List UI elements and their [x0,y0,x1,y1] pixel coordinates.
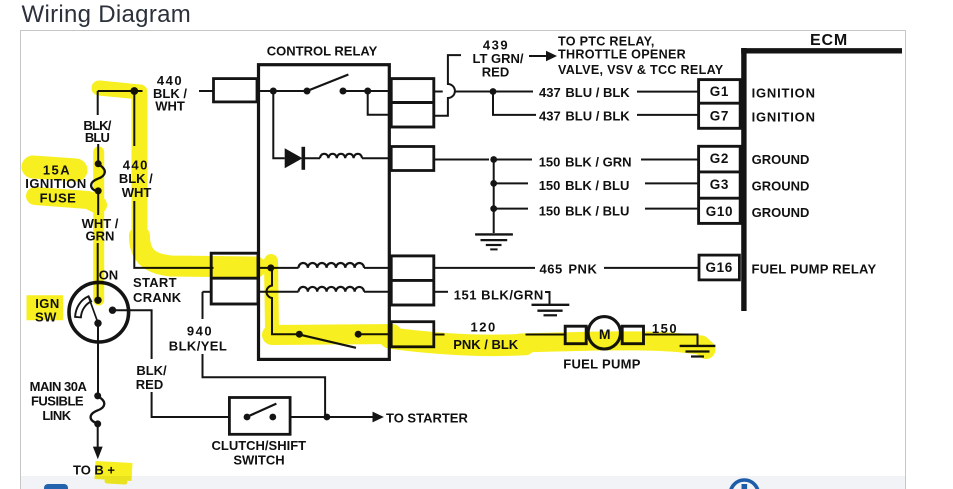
svg-text:IGNITION: IGNITION [752,110,816,125]
svg-text:PNK / BLK: PNK / BLK [453,337,519,352]
label wire 940 BLK/YEL [169,324,227,354]
ignition switch wiper crescent [75,296,91,317]
svg-text:START: START [133,275,177,290]
svg-text:ON: ON [99,268,119,283]
relay coil L2 [299,263,365,268]
relay terminal box RBC [391,147,434,171]
page title [22,1,192,29]
relay terminal box RBB divider [391,101,434,104]
relay suppression coil L1 [320,154,362,158]
label wire 440 BLK/WHT (top) [153,73,187,114]
svg-text:437 BLU / BLK: 437 BLU / BLK [539,85,630,100]
fuse 15A IGNITION FUSE terminal dot top [95,160,102,167]
svg-text:G10: G10 [706,204,733,219]
wire 940 BLK/YEL from LB3 [203,291,212,293]
wire from START CRANK contact [113,310,152,359]
wire 150 BLK/GRN from RBC [434,159,489,161]
arrow to PTC relay [529,55,546,57]
relay coil L3 [299,287,365,292]
highlighter over IGN SW label [27,295,64,320]
svg-text:FUEL PUMP RELAY: FUEL PUMP RELAY [752,262,877,277]
svg-text:G2: G2 [710,151,729,166]
wire BLK/RED lower segment [152,392,230,417]
svg-text:GROUND: GROUND [752,152,810,167]
svg-text:BLK/: BLK/ [136,363,167,378]
junction dot node 440 [130,87,138,95]
svg-text:GROUND: GROUND [752,178,810,193]
wire battery feed to fusible link [97,323,99,396]
fusible link MAIN 30A squiggle element [91,396,105,423]
wire 150 into G3 [645,182,699,184]
ignition switch IGN SW body circle [69,282,129,342]
ECM module bar horizontal top [741,48,902,53]
ECM connector box G2 [699,146,741,223]
footer button (next section, cropped) [44,484,68,489]
label switch position START CRANK [133,275,182,305]
junction dot node 150 row G2 [490,156,497,163]
wire coil L3 to RBE [364,291,392,293]
ground symbol under ground bus [475,233,513,235]
wire 465 PNK into G16 [604,267,699,269]
svg-text:RED: RED [136,377,163,392]
junction dot node 150 row G10 [490,205,497,212]
relay fuel pump contact dot right [355,331,362,338]
relay coil L2 feed dot [267,264,274,271]
svg-text:CONTROL RELAY: CONTROL RELAY [267,44,378,59]
highlighter inside relay vertical jog [271,261,272,330]
label wire BLK/RED [136,363,167,392]
svg-text:VALVE, VSV & TCC RELAY: VALVE, VSV & TCC RELAY [558,63,724,77]
svg-text:CLUTCH/SHIFT: CLUTCH/SHIFT [211,438,306,453]
fuel pump M1 motor circle [588,317,620,349]
highlighter on wire 440 BLK/WHT top segment [99,88,140,92]
svg-text:LINK: LINK [42,408,71,423]
ignition switch contact bottom feed [94,320,101,327]
wire 437 branch down to G7 row [493,92,536,115]
footer info icon (cropped circle) [730,480,758,489]
wire to B+ with arrowhead [97,424,99,447]
wire 120 PNK/BLK to fuel pump [526,334,566,336]
highlighter over TO B+ label [95,470,132,472]
junction dot node 437 [490,88,497,95]
wire 151 BLK/GRN to ground stub [545,292,550,304]
ECM connector box G7 divider [699,102,741,105]
fuse 15A IGNITION FUSE squiggle element [91,164,105,192]
relay switch blade (open) [307,75,348,92]
label wire BLK/BLU [83,118,111,145]
wire 151 BLK/GRN from RBE [434,291,448,293]
label node TO PTC RELAY [558,34,724,77]
relay terminal box LB2 [211,253,258,304]
highlighter sweep into control relay coil feed [140,236,257,267]
svg-text:TO B +: TO B + [73,463,115,478]
label ignition switch IGN SW [35,296,60,325]
svg-text:TO STARTER: TO STARTER [386,411,468,426]
junction dot node starter [324,414,331,421]
wire 120 PNK/BLK stub from RBF [434,334,445,336]
svg-text:FUSIBLE: FUSIBLE [31,394,84,409]
relay terminal box RBE divider [391,279,434,282]
wire 437 into G7 [637,114,699,116]
relay junction dot to RBB branch [364,88,371,95]
wire 437 BLU/BLK from RBA [434,91,443,93]
control relay U1 outline [259,65,390,360]
label wire 439 LT GRN/RED [472,38,523,80]
relay terminal box LB3 divider [211,277,258,280]
wire WHT/GRN lower segment into ignition switch [97,243,99,300]
wire 437 to G1 label stub [493,91,533,93]
wire 150 to label stub G10 [494,208,528,210]
clutch switch contact dot right [269,414,276,421]
wire 150 to label stub G3 [494,182,528,184]
highlighter along relay contact row to box F [272,334,392,335]
wire to starter with arrowhead [327,416,373,418]
label wire 440 BLK/WHT (vertical) [119,158,153,201]
svg-text:SW: SW [35,310,57,325]
wire 440 BLK/WHT vertical upper [133,91,135,146]
svg-text:150 BLK / BLU: 150 BLK / BLU [539,203,630,218]
wire 150 into G2 [641,159,699,161]
wire coil L2 to RBD [364,267,392,269]
svg-text:IGNITION: IGNITION [752,86,816,101]
label wire 120 PNK/BLK [453,319,519,352]
label fuse 15A IGNITION FUSE [25,163,86,206]
svg-text:THROTTLE OPENER: THROTTLE OPENER [558,48,686,62]
svg-text:150 BLK / GRN: 150 BLK / GRN [539,154,632,169]
svg-text:RED: RED [482,65,509,80]
ECM connector box G3 divider [699,170,741,173]
label fusible link MAIN 30A FUSIBLE LINK [30,379,88,423]
wire clutch switch to starter junction [290,416,327,418]
wire LB3 to coil L3 [257,291,299,293]
relay switch contact dot left [304,88,311,95]
ground symbol under 151 BLK/GRN [532,304,570,306]
ECM connector box G10 divider [699,197,741,200]
wire coil to RBC [362,157,392,159]
svg-text:TO PTC RELAY,: TO PTC RELAY, [558,34,655,48]
wire 440 BLK/WHT vertical lower and bend to relay [134,201,213,268]
relay contact wire top row right [343,90,392,92]
highlighter on fuse wire WHT/GRN down to ignition switch [93,152,104,300]
junction dot node 150 row G3 [490,180,497,187]
relay terminal box RBD [391,256,434,305]
wire 437 BLU/BLK after hop to junction [455,91,493,93]
svg-text:FUEL PUMP: FUEL PUMP [563,357,641,372]
svg-text:GROUND: GROUND [752,205,810,220]
diode D1 triangle [285,148,303,168]
wire 150 from fuel pump to ground [644,335,697,346]
svg-text:G7: G7 [710,109,729,124]
relay fuel pump contact blade (open) [301,335,357,348]
svg-text:WHT: WHT [155,99,185,114]
svg-text:CRANK: CRANK [133,290,182,305]
svg-text:GRN: GRN [86,229,115,244]
relay junction dot to diode branch [270,88,277,95]
relay contact wire top row left [257,90,307,92]
svg-text:G16: G16 [706,260,733,275]
diode D1 cathode bar [301,147,305,170]
svg-text:120: 120 [470,319,496,334]
ECM connector box G16 [699,255,739,280]
svg-text:FUSE: FUSE [40,191,77,206]
ground symbol after fuel pump [680,345,716,347]
svg-text:465 PNK: 465 PNK [540,262,598,277]
svg-text:IGNITION: IGNITION [25,176,86,191]
svg-text:G3: G3 [710,177,729,192]
svg-text:151 BLK/GRN: 151 BLK/GRN [454,287,544,302]
svg-text:G1: G1 [710,84,729,99]
wire 437 into G1 [637,91,699,93]
svg-text:BLK/YEL: BLK/YEL [169,339,227,354]
wire ground bus vertical [493,160,495,234]
svg-text:M: M [599,326,611,342]
relay branch wire to RBB [368,91,392,115]
wire diode to coil [303,157,320,159]
relay terminal box RBA [391,79,434,127]
fusible link MAIN 30A dot top [94,392,101,399]
ECM module bar vertical [741,48,746,311]
clutch/shift switch S1 box [229,398,290,435]
highlighter over 15A IGNITION FUSE label [33,167,76,170]
svg-text:BLU: BLU [85,130,110,145]
svg-text:940: 940 [187,324,213,339]
relay terminal box RBF [391,322,434,347]
svg-text:WHT: WHT [122,185,152,200]
wire LB2 to coil L2 [257,267,299,269]
svg-text:SWITCH: SWITCH [233,453,284,468]
wire jog from coil feed dot down with hop over L3 wire [266,268,299,334]
wire 440 BLK/WHT label stub into relay box [199,90,214,92]
clutch switch contact dot left [244,414,251,421]
wire 465 PNK from RBD [434,267,535,269]
fuse 15A IGNITION FUSE terminal dot bottom [95,187,102,194]
svg-text:437 BLU / BLK: 437 BLU / BLK [539,109,630,124]
wire BLK/BLU lower segment to fuse [97,144,99,164]
wire 440 BLK/WHT top horizontal [98,90,143,92]
wire 150 into G10 [645,208,699,210]
svg-text:150: 150 [652,321,678,336]
ECM connector box G1 [699,80,741,129]
ignition switch contact START CRANK [109,307,116,314]
relay terminal box LB1 [214,79,258,102]
relay fuel pump contact dot left [296,331,303,338]
label wire WHT/GRN [82,216,119,244]
wire 439 LT GRN/RED from RBB up with hop [434,55,461,116]
wire 150 to label stub G2 [494,159,532,161]
fuel pump M1 left terminal box [565,326,586,344]
wire contact to RBF [358,333,392,335]
wire 940 BLK/YEL lower run to starter node [203,354,326,417]
fusible link MAIN 30A dot bottom [94,420,101,427]
wire BLK/BLU upper segment [97,91,99,115]
highlighter along 120 PNK/BLK wire through fuel pump to ground [390,338,525,345]
wire from junction down to diode [273,91,284,158]
clutch switch blade [248,404,276,417]
svg-text:BLK /: BLK / [119,171,153,186]
svg-text:ECM: ECM [810,32,848,49]
svg-text:150 BLK / BLU: 150 BLK / BLU [539,178,630,193]
relay switch contact dot right [340,88,347,95]
svg-text:MAIN 30A: MAIN 30A [30,379,88,394]
wire WHT/GRN upper segment [97,191,99,215]
label clutch/shift switch [211,438,306,468]
ignition switch wiper link line [89,298,98,323]
fuel pump M1 right terminal box [622,326,643,344]
ignition switch contact ON [94,297,101,304]
highlighter on wire 440 BLK/WHT vertical run [132,95,148,238]
